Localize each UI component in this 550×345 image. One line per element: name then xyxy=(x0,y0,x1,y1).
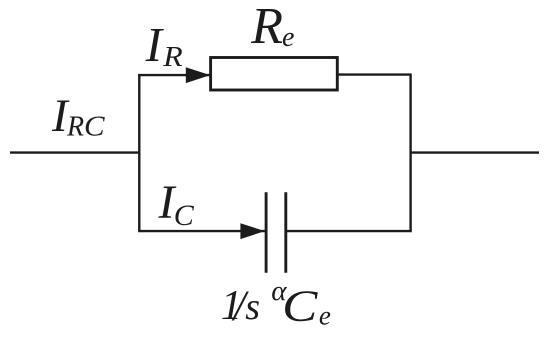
wire top branch to resistor xyxy=(138,74,210,76)
svg-text:I: I xyxy=(145,17,165,72)
svg-text:e: e xyxy=(282,22,294,53)
wire right branch vertical xyxy=(409,74,411,231)
wire output lead (right) xyxy=(411,151,539,153)
arrow IR current direction xyxy=(186,67,210,83)
svg-text:R: R xyxy=(250,0,283,55)
svg-text:C: C xyxy=(282,282,318,331)
svg-text:R: R xyxy=(66,111,84,142)
wire resistor to right vertical xyxy=(337,73,411,75)
capacitor Ce right plate xyxy=(284,192,287,272)
svg-text:C: C xyxy=(84,112,105,142)
svg-text:C: C xyxy=(174,199,195,232)
svg-text:s: s xyxy=(245,286,260,328)
wire bottom branch to capacitor xyxy=(138,230,265,232)
capacitor Ce left plate xyxy=(265,192,268,272)
label I_RC (input current) xyxy=(51,90,105,142)
wire input lead (left) xyxy=(10,151,139,153)
arrow IC current direction xyxy=(240,223,264,239)
wire left branch vertical xyxy=(138,74,140,231)
svg-text:R: R xyxy=(162,40,183,72)
label 1/s^alpha Ce (capacitor impedance) xyxy=(221,275,331,331)
svg-text:e: e xyxy=(319,301,331,331)
wire capacitor to right vertical xyxy=(286,230,412,232)
label I_C (capacitor branch current) xyxy=(158,176,195,232)
resistor Re body xyxy=(211,58,338,91)
label Re (resistor value) xyxy=(250,0,294,55)
label I_R (resistor branch current) xyxy=(145,17,184,73)
